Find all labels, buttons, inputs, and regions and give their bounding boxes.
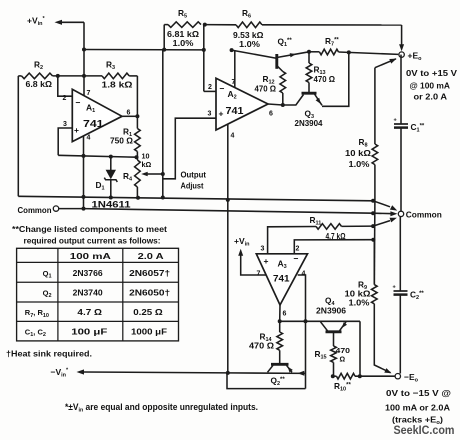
svg-text:2N3906: 2N3906	[316, 306, 346, 316]
resistor R9	[345, 240, 392, 374]
pin 6 label A2	[269, 111, 273, 118]
svg-text:Common: Common	[18, 205, 52, 215]
resistor R7	[309, 36, 398, 55]
wire Q4 emitter to -E0 rail	[358, 321, 362, 378]
svg-text:6: 6	[283, 311, 287, 318]
resistor R13	[306, 50, 335, 84]
svg-text:2.0 A: 2.0 A	[138, 251, 164, 261]
wire A3 pin2 loop	[294, 238, 375, 254]
svg-text:2N3740: 2N3740	[73, 287, 103, 297]
wire R2 to A1 pin2	[53, 74, 103, 96]
svg-text:3: 3	[208, 111, 212, 118]
op-amp A2	[216, 78, 268, 130]
svg-text:6.8 kΩ: 6.8 kΩ	[26, 79, 53, 89]
svg-text:0V to +15 V: 0V to +15 V	[406, 68, 457, 78]
wire common vertical segment	[373, 201, 376, 285]
resistor R6	[205, 8, 402, 49]
svg-text:**Change listed components to: **Change listed components to meet	[12, 225, 167, 234]
wire node rail A	[58, 155, 138, 160]
svg-text:Ω: Ω	[340, 357, 346, 364]
op-amp A3	[256, 254, 307, 306]
svg-text:4: 4	[231, 133, 235, 140]
wire -Vin to Q2 node	[227, 371, 306, 376]
svg-text:2N6057†: 2N6057†	[129, 268, 170, 278]
svg-text:−: −	[220, 84, 225, 94]
wire output adjust right to A2 pin3	[163, 118, 216, 179]
pin 3 label A3	[261, 246, 265, 253]
svg-text:−: −	[294, 254, 299, 264]
pin 6 label A1	[127, 110, 131, 117]
pin 7 label A3	[257, 271, 261, 278]
wire output adjust left	[161, 50, 165, 200]
svg-text:SeekIC.com: SeekIC.com	[394, 425, 455, 437]
label 1N4611	[92, 199, 131, 209]
pin 4 label A2	[226, 124, 235, 375]
pin 4 label A1	[87, 135, 91, 142]
zener diode D1	[96, 157, 118, 197]
transistor Q2	[268, 350, 293, 387]
wiper arrow of R4	[141, 172, 165, 177]
svg-text:2N6050†: 2N6050†	[129, 287, 170, 297]
svg-text:3: 3	[261, 246, 265, 253]
svg-text:+: +	[394, 118, 397, 124]
svg-text:7: 7	[87, 90, 91, 97]
label -E0 specs	[385, 388, 451, 426]
wire +Vin horizontal rail	[84, 48, 204, 52]
wire A3 pin3 to R11	[268, 227, 316, 254]
svg-text:100 mA or 2.0A: 100 mA or 2.0A	[385, 403, 450, 413]
svg-text:1.0%: 1.0%	[349, 298, 370, 308]
op-amp A1	[72, 89, 122, 141]
svg-text:470 Ω: 470 Ω	[249, 341, 274, 351]
svg-text:1.8 kΩ: 1.8 kΩ	[102, 80, 133, 90]
svg-text:+: +	[264, 256, 269, 266]
svg-text:1N4611: 1N4611	[92, 199, 131, 209]
table box	[17, 248, 179, 341]
svg-text:1.0%: 1.0%	[173, 38, 194, 48]
table row Q1	[43, 268, 171, 280]
svg-text:6: 6	[269, 111, 273, 118]
svg-text:100 μF: 100 μF	[71, 327, 107, 337]
svg-text:2: 2	[296, 246, 300, 253]
resistor R5	[164, 8, 207, 50]
wire +Vin drop to A1 pin7	[82, 22, 86, 96]
capacitor C1	[394, 55, 425, 212]
svg-text:0V to −15 V @: 0V to −15 V @	[386, 388, 451, 398]
pin 6 label A3	[283, 311, 287, 318]
svg-text:7: 7	[257, 271, 261, 278]
note heat sink	[6, 349, 92, 359]
svg-text:2N3904: 2N3904	[295, 118, 323, 128]
-E0 output terminal	[395, 372, 419, 384]
svg-text:+: +	[393, 285, 396, 291]
table header row	[70, 251, 164, 261]
svg-text:4: 4	[87, 135, 91, 142]
wire A2 output	[268, 103, 285, 107]
svg-text:Output: Output	[181, 170, 207, 180]
svg-text:100 mA: 100 mA	[70, 251, 111, 261]
common rail upper	[18, 196, 397, 211]
svg-text:1.0%: 1.0%	[349, 159, 370, 169]
wire A3 pin4	[298, 275, 308, 389]
svg-text:741: 741	[83, 119, 104, 130]
resistor R12	[255, 72, 286, 106]
transistor Q3	[283, 50, 351, 128]
svg-text:*±Vin are equal and opposite u: *±Vin are equal and opposite unregulated…	[65, 402, 258, 414]
common terminal right	[398, 209, 442, 219]
resistor R8	[345, 59, 397, 169]
resistor R3	[102, 60, 138, 90]
svg-text:470 Ω: 470 Ω	[255, 84, 277, 94]
wire bottom loop	[227, 373, 306, 389]
resistor R10	[333, 373, 395, 392]
svg-text:†Heat sink required.: †Heat sink required.	[6, 349, 92, 359]
resistor R2	[18, 60, 52, 90]
wire A1 output pin6	[122, 114, 139, 118]
wire A1 pin3 loop	[58, 128, 72, 155]
note equal opposite inputs	[65, 402, 258, 414]
table row Q2	[43, 287, 171, 299]
svg-text:+: +	[74, 125, 79, 135]
watermark SeekIC.com	[394, 425, 455, 437]
wire R3 to A1 output node	[136, 76, 138, 116]
svg-text:kΩ: kΩ	[142, 160, 152, 169]
transistor Q4	[316, 296, 347, 347]
common rail center	[84, 209, 398, 217]
svg-text:required output current as fol: required output current as follows:	[24, 236, 161, 245]
capacitor C2	[393, 217, 425, 374]
pin 2 label A1	[63, 95, 67, 102]
resistor R11	[310, 215, 397, 241]
svg-text:10 kΩ: 10 kΩ	[345, 148, 371, 158]
svg-text:750 Ω: 750 Ω	[110, 136, 133, 146]
wire A3 pin6 output	[278, 305, 360, 323]
svg-text:1000 μF: 1000 μF	[131, 327, 167, 337]
svg-text:−: −	[76, 98, 81, 108]
wire A2 pin2 riser	[202, 25, 216, 92]
resistor R14	[249, 321, 283, 350]
note change components	[12, 225, 167, 245]
pin 4 label A3	[302, 271, 306, 278]
svg-text:4.7 Ω: 4.7 Ω	[77, 307, 102, 317]
svg-text:6: 6	[127, 110, 131, 117]
pin 7 label A2	[230, 48, 236, 88]
wire A1 pin4 drop	[82, 136, 86, 209]
+Vin* input terminal	[27, 16, 84, 28]
resistor R1	[110, 116, 140, 157]
svg-text:2: 2	[63, 95, 67, 102]
pin 2 label A3	[296, 246, 300, 253]
pin 3 label A1	[63, 121, 67, 128]
svg-text:2: 2	[208, 84, 212, 91]
label Output Adjust	[181, 170, 207, 191]
svg-text:+: +	[219, 109, 224, 119]
pin 2 label A2	[208, 84, 212, 91]
table row C1 C2	[25, 327, 167, 339]
svg-text:or 2.0 A: or 2.0 A	[414, 92, 448, 102]
transistor Q1	[232, 37, 309, 72]
svg-text:3: 3	[63, 121, 67, 128]
common terminal left	[18, 205, 86, 215]
svg-text:470 Ω: 470 Ω	[314, 74, 336, 84]
svg-text:Common: Common	[406, 209, 442, 219]
svg-text:0.25 Ω: 0.25 Ω	[133, 307, 163, 317]
pin 3 label A2	[208, 111, 212, 118]
label +E0 specs	[406, 68, 457, 102]
svg-text:@ 100 mA: @ 100 mA	[410, 81, 451, 91]
svg-text:2N3766: 2N3766	[73, 268, 103, 278]
pin 7 label A1	[87, 90, 91, 97]
resistor R15	[315, 346, 351, 378]
+Vin label at A3	[234, 236, 266, 275]
svg-text:1.0%: 1.0%	[239, 39, 260, 49]
wire left loop from R2	[17, 76, 19, 196]
-Vin input terminal	[51, 367, 228, 379]
wire R8 bottom to common rail	[374, 165, 376, 201]
+E0 output terminal	[399, 25, 422, 62]
svg-text:470: 470	[336, 346, 351, 355]
potentiometer R4	[123, 152, 151, 197]
svg-text:Adjust: Adjust	[181, 181, 204, 191]
table row R7 R10	[25, 307, 163, 319]
svg-text:741: 741	[273, 274, 290, 285]
svg-text:741: 741	[226, 106, 244, 117]
